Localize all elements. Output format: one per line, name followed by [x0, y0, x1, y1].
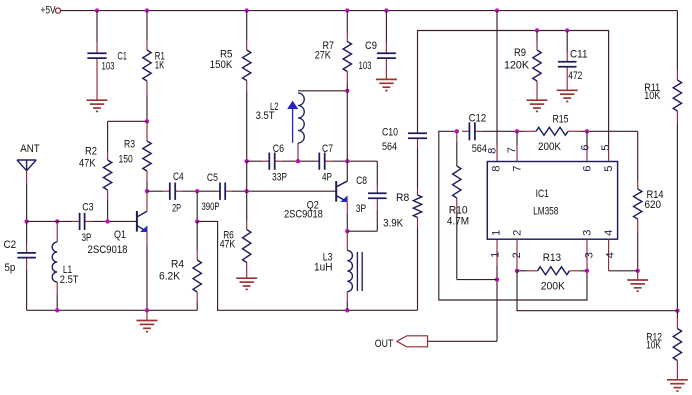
resistor R6: [243, 220, 251, 278]
svg-text:C10: C10: [382, 127, 398, 139]
node pin6 net: [585, 129, 589, 133]
node L1 top: [55, 219, 59, 223]
svg-text:1: 1: [491, 230, 503, 236]
capacitor C4: [163, 183, 182, 200]
wire right column: [676, 11, 678, 70]
value 103: [102, 60, 115, 72]
label C9: [365, 40, 377, 52]
svg-text:C1: C1: [117, 51, 127, 63]
label C10: [382, 127, 398, 139]
svg-text:10K: 10K: [644, 90, 660, 102]
wire Q1 emitter: [146, 245, 148, 310]
wire C8 top: [376, 161, 378, 185]
wire Q2 collector line: [346, 91, 348, 181]
svg-text:Q1: Q1: [114, 229, 126, 241]
resistor R13: [527, 267, 580, 275]
pin number 3 outside: [583, 252, 595, 258]
resistor R14: [634, 180, 642, 232]
svg-text:3P: 3P: [82, 232, 92, 244]
wire sig d: [482, 130, 524, 132]
svg-text:7: 7: [506, 147, 518, 153]
ground under R14: [627, 271, 648, 291]
terminal +5V: [55, 8, 60, 13]
node Q1 collector: [145, 189, 149, 193]
wire C11 top: [566, 31, 568, 53]
label C11: [570, 49, 588, 61]
svg-text:4P: 4P: [322, 172, 332, 184]
node rail-R7: [345, 8, 349, 12]
wire R7 bottom: [346, 83, 348, 91]
value 3P: [356, 203, 366, 215]
svg-text:564: 564: [472, 143, 487, 155]
wire L2 top: [298, 90, 347, 92]
label R15: [553, 114, 569, 126]
pin number 5 inside: [603, 165, 615, 171]
label C5: [207, 172, 218, 184]
connector OUT: [397, 336, 428, 347]
svg-text:C3: C3: [82, 202, 93, 214]
value 27K: [315, 49, 331, 61]
label OUT: [375, 338, 394, 350]
node pin7 net: [515, 129, 519, 133]
value 4.7M: [447, 215, 469, 227]
pin 3 stub: [586, 239, 588, 271]
svg-text:120K: 120K: [504, 59, 530, 71]
node fb right: [675, 309, 679, 313]
node bias-R9: [535, 28, 539, 32]
node ANT-C2: [24, 219, 28, 223]
pin number 6 outside: [580, 144, 592, 150]
node L2 bottom: [296, 159, 300, 163]
label R12: [646, 332, 662, 344]
label R4: [171, 258, 184, 270]
pin 8 stub: [496, 145, 498, 162]
node R1-R3-R2: [145, 119, 149, 123]
wire pin8 feed: [496, 11, 498, 145]
svg-text:2: 2: [511, 252, 523, 258]
value 47K: [79, 158, 96, 170]
wire sig b: [182, 190, 220, 192]
wire sig e: [580, 130, 638, 132]
label R11: [644, 82, 660, 94]
pin number 2 outside: [511, 252, 523, 258]
node Q2 collector net: [345, 159, 349, 163]
node pin4-R14: [636, 269, 640, 273]
node rail-Q1: [145, 308, 149, 312]
label C12: [469, 112, 487, 124]
label Q1 part: [88, 244, 128, 256]
node R5-R6: [245, 189, 249, 193]
value 6.2K: [159, 270, 180, 282]
value 200K b: [541, 281, 566, 293]
wire pin2 out: [517, 271, 677, 311]
label R6: [223, 230, 234, 242]
svg-text:7: 7: [512, 165, 524, 171]
svg-text:1: 1: [490, 252, 502, 258]
svg-text:47K: 47K: [220, 239, 236, 251]
value 1K: [155, 60, 165, 72]
resistor R7: [343, 33, 351, 83]
label C8: [356, 175, 367, 187]
wire osc b: [282, 160, 319, 162]
label LM358: [533, 206, 558, 218]
node C4-C5: [195, 189, 199, 193]
svg-text:620: 620: [645, 199, 662, 211]
capacitor C8: [368, 185, 387, 210]
ground under C1: [87, 100, 108, 111]
label Q2: [307, 199, 319, 211]
wire R5-R6 mid: [246, 161, 248, 191]
wire fb loop: [439, 131, 587, 300]
wire L3 bottom: [346, 302, 348, 310]
wire C9 top: [385, 11, 387, 42]
svg-text:103: 103: [359, 60, 372, 72]
value 472: [568, 70, 582, 82]
svg-text:47K: 47K: [79, 158, 96, 170]
node pin2-R13: [515, 269, 519, 273]
wire ground rail: [27, 309, 198, 311]
label C6: [273, 143, 284, 155]
svg-text:472: 472: [568, 70, 582, 82]
pin 2 stub: [516, 239, 518, 271]
svg-text:4: 4: [603, 230, 615, 236]
wire R11-R12: [676, 123, 678, 311]
value 4P: [322, 172, 332, 184]
wire R10 link: [457, 279, 497, 281]
label Q2 part: [284, 209, 323, 221]
wire osc a: [247, 160, 262, 162]
value 33P: [272, 171, 287, 183]
label R10: [449, 204, 468, 216]
label R5: [220, 49, 233, 61]
wire R8 bottom: [417, 228, 419, 310]
svg-text:3.9K: 3.9K: [383, 218, 403, 230]
wire C8 link: [347, 230, 377, 232]
capacitor C11: [558, 52, 577, 90]
pin number 1 outside: [490, 252, 502, 258]
svg-text:2: 2: [512, 230, 524, 236]
value 150K: [210, 59, 233, 71]
svg-text:5p: 5p: [5, 262, 16, 274]
wire C8 bottom: [376, 210, 378, 231]
svg-text:564: 564: [382, 141, 397, 153]
label R8: [396, 192, 409, 204]
svg-text:C9: C9: [365, 40, 377, 52]
svg-text:+5V: +5V: [41, 4, 56, 16]
pin number 4 outside: [604, 252, 616, 258]
svg-text:6: 6: [582, 165, 594, 171]
svg-text:150: 150: [119, 154, 133, 166]
svg-text:C8: C8: [356, 175, 367, 187]
power label +5V: [41, 4, 56, 16]
wire sig c: [232, 190, 336, 192]
svg-text:33P: 33P: [272, 171, 287, 183]
wire R14 bottom: [637, 232, 639, 271]
resistor R4: [193, 250, 201, 302]
wire Q2 emitter: [346, 214, 348, 231]
value 120K: [504, 59, 530, 71]
node R2 bottom: [105, 219, 109, 223]
wire R2 bottom: [107, 200, 109, 221]
label R14: [647, 189, 664, 201]
wire R4 top: [196, 191, 198, 221]
wire R12 top: [676, 311, 678, 318]
transistor Q2: [336, 181, 347, 202]
wire Q2 emitter lead: [346, 202, 348, 214]
value 200K a: [538, 141, 561, 153]
capacitor C1: [87, 42, 106, 100]
node pin3-R13: [585, 269, 589, 273]
label L1: [63, 264, 72, 276]
value 47K: [220, 239, 236, 251]
resistor R11: [673, 70, 681, 123]
antenna ANT: [17, 160, 36, 184]
svg-text:1K: 1K: [155, 60, 165, 72]
svg-text:R3: R3: [124, 139, 135, 151]
label C1: [117, 51, 127, 63]
node rail-C1: [95, 8, 99, 12]
value 10K b: [646, 340, 661, 352]
inductor L1: [52, 221, 57, 295]
pin 1 stub: [496, 239, 498, 266]
wire R2 top: [107, 121, 109, 152]
node rail-pin8: [495, 8, 499, 12]
svg-text:LM358: LM358: [533, 206, 558, 218]
svg-text:1uH: 1uH: [314, 261, 333, 273]
wire input b: [92, 220, 136, 222]
label R7: [323, 40, 335, 52]
resistor R8: [413, 188, 421, 228]
svg-text:R2: R2: [85, 145, 97, 157]
svg-text:3.5T: 3.5T: [256, 110, 275, 122]
wire pin1 down: [496, 266, 498, 341]
node C6 branch: [245, 159, 249, 163]
svg-text:4.7M: 4.7M: [447, 215, 469, 227]
wire R3 bottom: [146, 182, 148, 191]
capacitor C2: [17, 243, 36, 270]
label C4: [173, 171, 184, 183]
label L2: [270, 101, 278, 113]
svg-text:R9: R9: [514, 47, 526, 59]
svg-text:2P: 2P: [172, 202, 181, 214]
node rail-R1: [145, 8, 149, 12]
value 103 b: [359, 60, 372, 72]
wire R14 top: [637, 131, 639, 180]
capacitor C7: [319, 153, 332, 170]
label R3: [124, 139, 135, 151]
label L3: [323, 252, 333, 264]
wire R13 left: [517, 270, 527, 272]
pin 5 stub: [608, 145, 610, 162]
value 1uH: [314, 261, 333, 273]
svg-text:6: 6: [580, 144, 592, 150]
resistor R1: [143, 40, 151, 95]
pin 6 wire: [586, 131, 588, 145]
wire R13 right: [580, 270, 587, 272]
ground under R12: [667, 380, 688, 391]
wire R1 top: [146, 11, 148, 40]
wire Q1 collector: [146, 191, 148, 211]
value 620: [645, 199, 662, 211]
wire bias net: [418, 31, 609, 146]
pin number 1 inside: [491, 230, 503, 236]
svg-text:150K: 150K: [210, 59, 233, 71]
svg-text:C4: C4: [173, 171, 184, 183]
node R10 top: [455, 129, 459, 133]
svg-text:ANT: ANT: [20, 143, 39, 155]
capacitor C6: [262, 153, 282, 170]
value 5p: [5, 262, 16, 274]
resistor R12: [673, 318, 681, 380]
svg-text:200K: 200K: [541, 281, 566, 293]
svg-text:R15: R15: [553, 114, 569, 126]
wire C10-R8: [417, 148, 419, 188]
svg-text:3: 3: [583, 252, 595, 258]
inductor L3: [347, 231, 362, 302]
pin number 8 inside: [491, 165, 503, 171]
svg-text:C12: C12: [469, 112, 487, 124]
value 564 a: [382, 141, 397, 153]
pin number 4 inside: [603, 230, 615, 236]
label C7: [322, 143, 333, 155]
node bias-C11: [565, 28, 569, 32]
node R10-pin1: [495, 277, 499, 281]
svg-text:R13: R13: [543, 252, 561, 264]
wire R10 bottom: [456, 210, 458, 280]
pin number 6 inside: [582, 165, 594, 171]
label R13: [543, 252, 561, 264]
svg-text:3P: 3P: [356, 203, 366, 215]
node rail-R5: [245, 8, 249, 12]
pin 4 stub: [608, 239, 610, 271]
capacitor C3: [72, 213, 92, 230]
svg-text:C2: C2: [4, 239, 17, 251]
wire R4 lead: [196, 221, 198, 250]
node Q2 emitter: [345, 229, 349, 233]
value 390P: [202, 201, 220, 213]
svg-text:C11: C11: [570, 49, 588, 61]
resistor R15: [524, 127, 580, 135]
svg-text:200K: 200K: [538, 141, 561, 153]
ground under R6: [236, 278, 257, 289]
wire R10 top seg: [456, 142, 458, 166]
svg-text:3: 3: [582, 230, 594, 236]
resistor R5: [243, 40, 251, 92]
capacitor C9: [377, 42, 396, 79]
pin number 3 inside: [582, 230, 594, 236]
resistor R2: [103, 152, 111, 200]
svg-text:C7: C7: [322, 143, 333, 155]
resistor R10: [453, 166, 461, 210]
wire Q1 emitter lead: [146, 232, 148, 245]
svg-text:10K: 10K: [646, 340, 661, 352]
op-amp IC1: [487, 162, 617, 240]
pin number 8 outside: [486, 148, 498, 154]
pin 7 wire: [516, 131, 518, 145]
value 2P: [172, 202, 181, 214]
ground under C9: [376, 79, 397, 90]
wire R6 top: [246, 191, 248, 220]
wire input a: [27, 220, 72, 222]
svg-text:C6: C6: [273, 143, 284, 155]
wire C1 top: [96, 11, 98, 42]
wire R7 top: [346, 11, 348, 33]
transistor Q1: [137, 211, 148, 232]
wire R2 branch: [108, 120, 147, 122]
pin number 5 outside: [600, 144, 612, 150]
wire feedback branch: [197, 221, 417, 310]
node rail-C9: [384, 8, 388, 12]
resistor R9: [533, 41, 541, 100]
resistor R3: [143, 121, 151, 182]
svg-text:C5: C5: [207, 172, 218, 184]
value 150: [119, 154, 133, 166]
inductor L2: [287, 93, 304, 161]
svg-text:R8: R8: [396, 192, 409, 204]
wire osc c: [332, 160, 377, 162]
svg-text:27K: 27K: [315, 49, 331, 61]
svg-text:2SC9018: 2SC9018: [284, 209, 323, 221]
ground under C11: [557, 90, 578, 101]
label R1: [155, 51, 165, 63]
label R2: [85, 145, 97, 157]
wire L1 bottom: [56, 295, 58, 310]
wire R9 top: [536, 31, 538, 42]
wire sig a: [147, 190, 163, 192]
capacitor C10: [408, 133, 427, 148]
wire OUT link: [428, 340, 497, 342]
wire C2 top: [26, 221, 28, 243]
node R7 bottom: [345, 89, 349, 93]
wire ANT down: [26, 184, 28, 221]
value 3.5T: [256, 110, 275, 122]
node L3 bottom: [345, 308, 349, 312]
pin number 2 inside: [512, 230, 524, 236]
label R9: [514, 47, 526, 59]
label C3: [82, 202, 93, 214]
node R4 branch: [195, 219, 199, 223]
svg-text:4: 4: [604, 252, 616, 258]
wire R10 lead: [456, 131, 458, 142]
node rail-L1: [55, 308, 59, 312]
wire R4 bottom: [196, 302, 198, 310]
ground main: [137, 310, 158, 331]
svg-text:2.5T: 2.5T: [60, 274, 79, 286]
wire R5 bottom: [246, 92, 248, 161]
wire R5 top: [246, 11, 248, 40]
label Q1: [114, 229, 126, 241]
value 10K a: [644, 90, 660, 102]
pin number 7 inside: [512, 165, 524, 171]
svg-text:2SC9018: 2SC9018: [88, 244, 128, 256]
svg-text:103: 103: [102, 60, 115, 72]
svg-text:OUT: OUT: [375, 338, 394, 350]
wire R1 bottom: [146, 95, 148, 121]
svg-text:8: 8: [486, 148, 498, 154]
ground under R9: [527, 100, 548, 111]
value 3.9K: [383, 218, 403, 230]
wire C2 bottom: [26, 270, 28, 310]
label C2: [4, 239, 17, 251]
label ANT: [20, 143, 39, 155]
pin number 7 outside: [506, 147, 518, 153]
wire +5V rail: [61, 10, 678, 12]
value 564 b: [472, 143, 487, 155]
svg-text:5: 5: [603, 165, 615, 171]
svg-text:5: 5: [600, 144, 612, 150]
capacitor C5: [220, 183, 232, 200]
label IC1: [536, 188, 549, 200]
